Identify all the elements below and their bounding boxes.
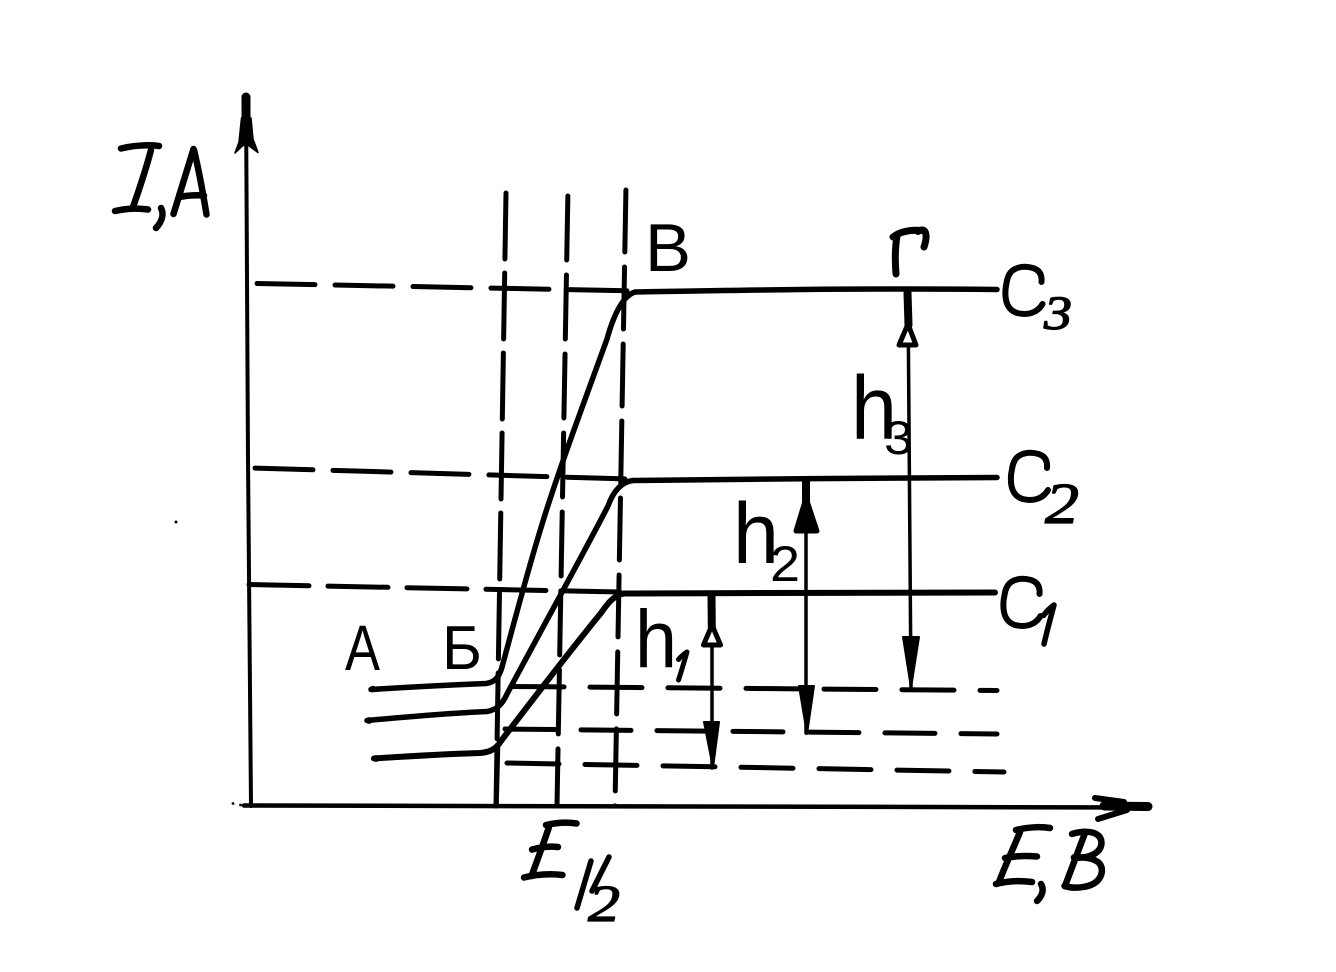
arrow h3 bottom arrowhead (filled wedge) — [903, 637, 919, 688]
arrow h1 top arrowhead (open) — [708, 597, 716, 627]
dashed baseline extension R3 — [505, 763, 1004, 772]
label C2 — [1011, 453, 1048, 500]
arrow h2 bottom arrowhead (filled wedge) — [799, 686, 814, 734]
svg-text:Б: Б — [442, 614, 482, 683]
arrow h2 shaft — [804, 482, 808, 733]
y-axis I axis line — [246, 96, 251, 806]
dashed level line L2 (C2 plateau level) — [252, 468, 628, 479]
polarogram curve 2 (middle, C2) — [367, 478, 997, 721]
arrow h2 top arrowhead (filled) — [802, 481, 810, 504]
label E1/2 E half-wave potential — [524, 823, 577, 878]
label C3 — [1005, 267, 1042, 314]
arrow h3 shaft — [908, 292, 911, 688]
svg-text:h: h — [635, 594, 677, 685]
svg-text:3: 3 — [1043, 287, 1072, 340]
label C1 — [1003, 579, 1040, 626]
vertical dashed line V3 — [615, 186, 626, 806]
y-axis arrowhead — [242, 97, 251, 132]
dashed level line L1 (C1 plateau level) — [249, 585, 620, 593]
x-axis arrowhead — [1104, 802, 1148, 812]
stray ink dot — [175, 521, 178, 524]
svg-text:2: 2 — [588, 876, 620, 933]
x-axis E axis line — [244, 806, 1146, 808]
arrow h3 top arrowhead (open) — [908, 293, 909, 325]
arrow h1 shaft — [710, 598, 714, 768]
dashed baseline extension R2 — [500, 729, 997, 734]
svg-text:В: В — [645, 210, 691, 286]
point label G(cyrillic Г) hand-drawn — [893, 230, 926, 274]
axis label I,A — [115, 145, 207, 228]
vertical dashed line V1 — [496, 193, 506, 806]
svg-text:А: А — [345, 612, 380, 684]
arrow h1 bottom arrowhead (filled wedge) — [704, 722, 719, 768]
pen blob curve1 start — [373, 755, 380, 762]
pen blob curve2 start — [366, 717, 373, 724]
svg-text:2: 2 — [770, 536, 800, 592]
axis label E,B — [996, 827, 1102, 901]
pen blob curve3 start — [370, 686, 376, 692]
dashed baseline extension R1 — [512, 687, 997, 691]
svg-text:2: 2 — [1045, 471, 1079, 536]
dashed level line L3 (C3 plateau level) — [257, 284, 640, 292]
polarogram curve 1 (bottom, C1) — [374, 593, 995, 759]
svg-text:3: 3 — [884, 411, 913, 464]
polarogram curve 3 (top, C3) — [371, 289, 997, 689]
vertical dashed line V2 — [557, 188, 568, 806]
